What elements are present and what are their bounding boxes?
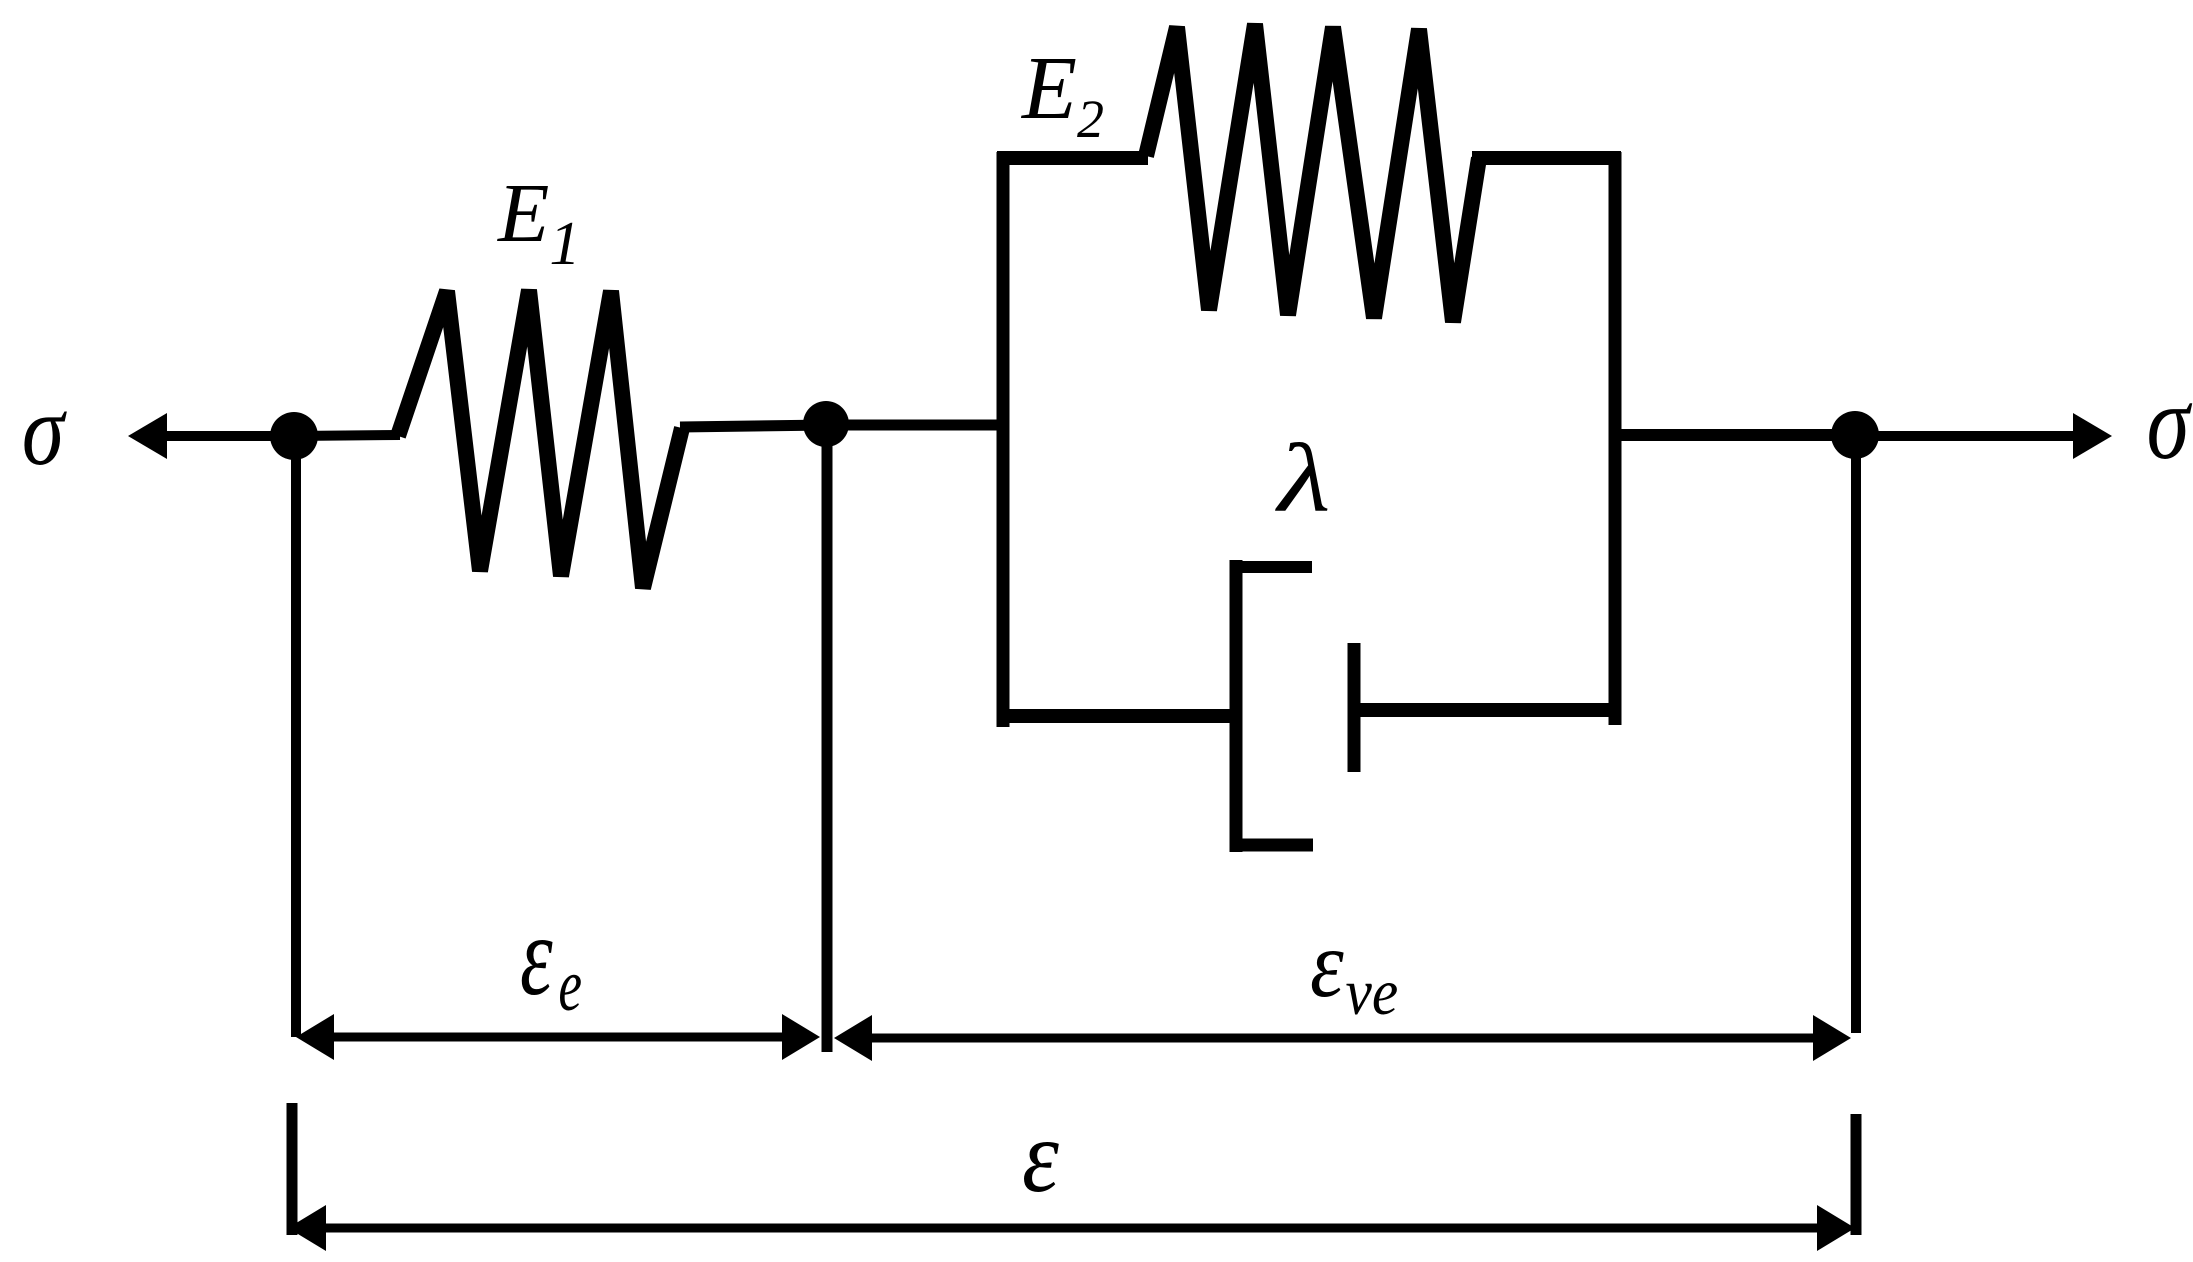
dimension arrow epsilon_e [296,1014,820,1060]
svg-text:ε: ε [1022,1100,1059,1215]
tick left for epsilon [287,1103,298,1235]
svg-text:λ: λ [1275,424,1331,532]
node C (right junction) [1831,411,1879,459]
label epsilon_e [520,892,582,1026]
wire node B to Kelvin block left bar [826,420,1002,431]
sigma label right [2147,364,2193,481]
node A (left junction) [270,412,318,460]
spring E1 (resistor-style zigzag) [398,290,682,588]
label epsilon_ve [1310,911,1398,1029]
wire spring E1 to node B [680,425,830,427]
piston rod to right bar [1354,703,1621,717]
dashpot cylinder top arm [1230,561,1312,573]
svg-text:σ: σ [2147,364,2193,481]
svg-text:E2: E2 [1020,39,1104,149]
sigma label left [22,374,67,487]
dashpot cylinder bottom arm [1230,839,1313,852]
label lambda [1275,424,1331,532]
dashpot piston plate [1348,643,1361,772]
extension line below node C [1851,435,1861,1033]
wire right bar to node C [1615,429,1857,441]
svg-text:σ: σ [22,374,67,487]
label epsilon (total strain) [1022,1100,1059,1215]
bottom rail (node B side to dashpot) [997,709,1236,723]
label E1 [497,167,580,278]
top rail left segment [997,151,1148,165]
dimension arrow epsilon (total) [288,1205,1855,1251]
node B (middle junction) [803,401,849,447]
dashpot lambda: cylinder wall [1230,560,1243,852]
Kelvin-Voigt block left bar [997,152,1010,727]
arrow left (stress sigma) [128,413,298,459]
tick right for epsilon [1851,1114,1862,1235]
svg-text:εve: εve [1310,911,1398,1029]
extension line below node A [291,436,301,1037]
top rail right segment [1472,151,1621,165]
svg-text:E1: E1 [497,167,580,278]
svg-text:εe: εe [520,892,582,1026]
wire node A to spring E1 [294,435,400,436]
extension line below node B [822,424,833,1052]
label E2 [1020,39,1104,149]
spring E2 (zigzag) [1146,24,1479,322]
Kelvin-Voigt block right bar [1609,152,1622,725]
dimension arrow epsilon_ve [834,1015,1851,1061]
arrow right (stress sigma) [1855,413,2112,459]
